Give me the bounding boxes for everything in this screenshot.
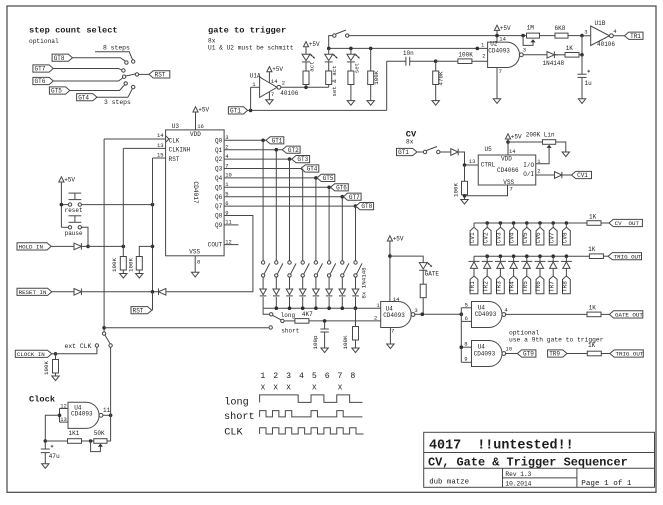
pin Q8 [215,209,229,219]
svg-text:14: 14 [157,132,164,139]
svg-text:pause: pause [65,230,83,237]
label 3 steps [104,99,131,106]
svg-text:CV1: CV1 [469,232,476,243]
svg-text:GT6: GT6 [336,184,347,191]
resistor 1K CV out [587,213,609,225]
svg-text:+5V: +5V [272,66,283,73]
title block Page 1 of 1 [581,480,632,488]
svg-text:100K: 100K [111,258,118,272]
op-amp U1A inverter 40106 [250,73,299,98]
wire GT5 to contact [70,85,125,91]
svg-text:100K: 100K [373,70,380,84]
svg-text:7: 7 [391,328,394,335]
diode step 4 1N4148 [299,277,306,308]
wire HOLD IN to diode [51,245,74,247]
svg-text:TR5: TR5 [522,281,529,292]
note optional [29,38,59,45]
svg-text:5: 5 [312,372,317,381]
svg-text:2: 2 [537,168,540,175]
pushbutton reset [65,193,83,214]
svg-text:1K1: 1K1 [69,430,80,437]
resistor 100K CLKINH pulldown [111,246,126,273]
title text 4017 !!untested!! [429,438,574,453]
svg-text:14: 14 [509,148,516,155]
switch step 1 [261,261,269,277]
diode TR2 [482,256,493,276]
svg-text:GT4: GT4 [78,94,89,101]
svg-text:CV1: CV1 [577,172,588,179]
svg-text:CLKINH: CLKINH [169,146,191,153]
power +5V 4017 VDD pin 16 [193,106,210,130]
svg-text:Q9: Q9 [215,222,223,229]
nand gate U4 CD4093 9th gate [464,341,512,367]
diode TR4 [508,256,519,276]
svg-text:act: act [309,61,316,71]
wire Q4 column drop [315,178,317,261]
wire U4 osc output [103,347,112,441]
potentiometer 200K Lin [508,132,566,164]
svg-text:CD4093: CD4093 [71,411,93,418]
tag CLOCK IN [15,350,51,358]
svg-text:step count select: step count select [29,25,118,35]
tag GT6 (step select) [33,77,53,85]
svg-text:GT6: GT6 [35,78,46,85]
svg-text:100K: 100K [127,258,134,272]
svg-text:Q6: Q6 [215,194,223,201]
wire CV out bus [474,221,587,225]
tag TR4 (bus input) [509,276,518,294]
wire Q6 column drop [341,197,343,261]
svg-text:1M: 1M [527,25,535,32]
svg-text:GT8: GT8 [361,203,372,210]
wire CLOCK IN to switch [52,347,97,355]
svg-text:GT4: GT4 [307,166,318,173]
tag TR7 (bus input) [548,276,557,294]
tag GT7 (step select) [33,65,53,73]
capacitor 100p [312,321,329,350]
tag RST (to reset net) [131,292,153,315]
ground 1u cap [578,99,585,104]
svg-text:200K Lin: 200K Lin [526,132,555,139]
svg-text:11: 11 [103,407,111,414]
ground 100K pulldown [367,101,374,106]
svg-text:VDD: VDD [501,155,512,162]
switch step 4 [301,261,309,277]
switch step 3 [288,261,296,277]
wire Q3 column drop [302,169,304,261]
timing diagram X marks [261,384,343,392]
svg-text:CV6: CV6 [535,232,542,243]
svg-text:optional: optional [29,38,59,45]
wire GT6 to contact [53,78,123,81]
svg-text:CLK: CLK [169,137,180,144]
diode step 8 1N4148 [352,277,359,308]
pin Q6 [215,191,229,201]
svg-text:8: 8 [350,372,355,381]
resistor 100K long bus pulldown [342,308,359,349]
tag GT6 (from Q5) [331,184,349,192]
note optional 9th gate [509,330,604,344]
svg-text:14: 14 [499,36,506,43]
wire Q4 to GT5 [224,176,318,180]
switch step 6 [327,261,335,277]
tag TRIG OUT (9th) [610,350,644,358]
tag CV8 (bus input) [562,223,571,245]
tag GT9 [517,350,536,358]
tag TR6 (bus input) [535,276,544,294]
svg-text:6: 6 [325,372,330,381]
svg-text:GT5: GT5 [51,88,62,95]
svg-text:VSS: VSS [189,249,200,256]
label 8 steps [103,45,130,52]
tag CV3 (bus input) [496,223,505,245]
LED act [302,54,316,72]
svg-text:X: X [273,384,278,392]
svg-text:TR6: TR6 [535,281,542,292]
section title step count select [29,25,118,35]
diode step 6 1N4148 [326,277,333,308]
timing waveform short [224,411,362,423]
svg-text:7: 7 [499,68,502,75]
svg-text:CD4093: CD4093 [474,350,496,357]
diode CV input [440,149,458,156]
tag GT3 (from Q2) [292,156,310,164]
svg-text:CD4093: CD4093 [383,312,405,319]
svg-text:3: 3 [523,47,526,54]
diode CV out [555,172,562,179]
svg-text:CV3: CV3 [496,232,503,243]
svg-text:+5V: +5V [393,235,404,242]
svg-text:10n: 10n [403,50,414,57]
tag CV1 (bus input) [469,223,478,245]
resistor 1K TRIG out [588,246,608,259]
wire hold net [81,245,125,249]
svg-text:GT9: GT9 [523,351,534,358]
svg-text:TRIG OUT: TRIG OUT [616,351,644,358]
wire CLK to short contact [104,327,269,329]
section title CV [406,129,417,139]
tag TR1 (bus input) [469,276,478,294]
wire reset net [81,290,158,294]
wire RESET IN to diode [52,291,74,293]
svg-text:Clock: Clock [29,394,55,404]
ground clock pulldown [52,376,59,381]
svg-text:1: 1 [260,372,265,381]
svg-text:Q8: Q8 [215,213,223,220]
svg-text:+5V: +5V [198,106,209,113]
svg-text:GT1: GT1 [272,137,283,144]
LED GATE [419,262,439,277]
svg-text:8: 8 [464,341,467,348]
power +5V U2 pin 14 [494,25,511,43]
tag HOLD IN [17,243,51,251]
tag CV OUT [609,219,642,227]
svg-text:RST: RST [133,307,144,314]
svg-text:CV4: CV4 [509,232,516,243]
title block frame [424,432,655,487]
svg-text:TR7: TR7 [548,281,555,292]
svg-text:reset: reset [65,207,83,214]
svg-text:1K: 1K [588,246,596,253]
capacitor 1u polarized [578,55,593,99]
svg-text:TR4: TR4 [509,281,516,292]
svg-text:13: 13 [469,158,476,165]
svg-text:GT5: GT5 [323,175,334,182]
switch step 8 [354,261,362,277]
ground 100K long bus [352,348,359,353]
svg-text:CV OUT: CV OUT [615,220,640,227]
svg-text:14: 14 [271,78,278,85]
wire TR9 to 1K [567,353,587,355]
diode reset input [74,289,81,296]
wire set rail to U2 pin1 [481,41,485,48]
wire U1A output rail [281,85,329,90]
svg-text:U1 & U2 must be schmitt: U1 & U2 must be schmitt [208,44,294,51]
svg-text:5: 5 [465,301,468,308]
svg-text:100K: 100K [458,51,473,58]
svg-text:47u: 47u [49,453,60,460]
wire diode to CV1 tag [562,174,572,176]
switch CV sample [417,147,440,154]
LED set [347,48,360,73]
svg-text:long: long [224,396,248,408]
wire Q8 to reset diode [166,216,253,292]
svg-text:470K: 470K [438,71,445,85]
diode TR7 [548,256,559,276]
tag TR2 (bus input) [482,276,491,294]
LED set & act [325,48,338,96]
svg-text:TR9: TR9 [549,351,560,358]
tag CV1 (from U5) [572,171,592,179]
svg-text:1K: 1K [566,45,574,52]
svg-text:+5V: +5V [64,176,75,183]
nand gate U4 CD4093 oscillator [60,402,110,428]
svg-text:8 steps: 8 steps [103,45,130,52]
wire Q1 column drop [275,150,277,261]
svg-text:GT7: GT7 [349,194,360,201]
wire Q5 column drop [328,187,330,260]
tag RESET IN [17,288,52,296]
resistor set LED [348,62,354,101]
wire Q6 to GT7 [224,195,344,199]
pin Q9 [215,219,233,229]
resistor 100K RST pulldown [127,246,152,273]
wire Q3 to GT4 [224,167,304,171]
tag GT8 (step select) [52,54,72,62]
wire common to RST tag [139,73,149,75]
svg-text:50K: 50K [94,430,105,437]
svg-text:TRIG OUT: TRIG OUT [614,253,642,260]
svg-text:TR1: TR1 [469,281,476,292]
svg-text:4: 4 [299,372,304,381]
wire U5 out to diode [536,174,555,176]
title text CV, Gate & Trigger Sequencer [428,456,628,470]
svg-text:GATE OUT: GATE OUT [615,312,643,319]
wire 8 steps to contact [95,52,133,60]
svg-text:O/I: O/I [523,171,534,178]
svg-text:gate to trigger: gate to trigger [208,25,286,35]
tag TR8 (bus input) [562,276,571,294]
wire U2 output [523,54,547,56]
note U1 & U2 must be schmitt [208,44,294,51]
power +5V U1A pin 14 [267,66,284,82]
svg-text:GT1: GT1 [398,149,409,156]
ground 470K [432,101,439,106]
tag CV5 (bus input) [522,223,531,245]
svg-text:3 steps: 3 steps [104,99,131,106]
node trigger threshold [580,28,587,56]
svg-text:Rev 1.3: Rev 1.3 [505,471,531,478]
note 8x CV [406,138,414,145]
svg-text:HOLD IN: HOLD IN [19,244,44,251]
tag CV4 (bus input) [509,223,518,245]
svg-text:COUT: COUT [208,242,223,249]
resistor 1K1 [44,430,94,444]
wire CLKINH drop [122,148,124,246]
tag CV7 (bus input) [548,223,557,245]
node 100p junction [323,319,327,323]
diode step 5 1N4148 [313,277,320,308]
svg-text:6: 6 [465,315,468,322]
svg-text:X: X [312,384,317,392]
resistor 1K gate out [587,304,609,316]
svg-text:1u: 1u [585,80,593,87]
svg-text:15: 15 [157,152,164,159]
wire Q9 stub [224,224,238,226]
diode hold input [74,243,81,250]
svg-text:VDD: VDD [190,131,201,138]
wire +5V to GATE LED [390,256,423,263]
resistor 6K8 [555,25,569,38]
pin Q0 [215,134,229,144]
tag GATE OUT [609,311,643,319]
tag CV2 (bus input) [482,223,491,245]
svg-text:8x 1N4148: 8x 1N4148 [360,267,367,299]
svg-text:GT2: GT2 [288,147,299,154]
potentiometer 50K [91,430,107,452]
svg-text:40106: 40106 [280,90,298,97]
timing diagram step numbers [260,372,355,381]
IC U3 CD4017 counter [166,123,225,256]
diode TR8 [561,256,572,276]
nand gate U4 CD4093 gate out driver [381,296,418,335]
switch step 7 [341,261,349,277]
svg-text:2: 2 [482,53,485,60]
nand gate U4 CD4093 gate buffer [465,301,509,327]
tag TR9 [548,350,567,358]
svg-text:+5V: +5V [511,133,522,140]
svg-text:6K8: 6K8 [555,25,566,32]
section title gate to trigger [208,25,286,35]
switch step count selector [122,60,139,89]
switch step 2 [275,261,283,277]
wire GT8 to contact [73,58,126,62]
svg-text:CV8: CV8 [562,232,569,243]
svg-text:long: long [281,312,296,319]
tag TRIG OUT [608,253,642,261]
capacitor 10n [387,50,436,110]
svg-text:U2: U2 [490,41,498,48]
wire diode to U5 pin13 [458,152,478,167]
tag TR5 (bus input) [522,276,531,294]
node 10n/470K/100K junction [434,59,438,63]
tag GT2 (from Q1) [282,146,300,154]
svg-text:CD4017: CD4017 [192,181,199,204]
diode step 7 1N4148 [339,277,346,308]
wire Q7 column drop [355,206,357,261]
svg-text:100p: 100p [312,335,319,349]
ground 4017 VSS pin 8 [192,256,201,277]
wire long bus to long contact [263,308,269,314]
svg-text:TR3: TR3 [496,281,503,292]
switch ext CLK select [65,332,113,350]
svg-text:U1B: U1B [595,20,606,27]
svg-text:1N4148: 1N4148 [543,60,565,67]
svg-text:4017 !!untested!!: 4017 !!untested!! [429,438,574,453]
tag GT4 (from Q3) [301,165,319,173]
svg-text:8x: 8x [406,138,414,145]
svg-text:13: 13 [157,142,164,149]
svg-text:X: X [261,384,266,392]
switch long/short [269,312,299,335]
diode TR3 [495,256,506,276]
svg-text:X: X [286,384,291,392]
capacitor 47u polarized [41,441,60,464]
ground U2 pin 7 [493,68,502,104]
svg-text:CD4093: CD4093 [475,311,497,318]
wire pause button to hold net [61,227,89,248]
ground CV pulldown [461,200,468,205]
resistor 1K trig9 out [587,342,610,356]
svg-text:10.2014: 10.2014 [505,481,531,488]
wire Q0 column drop [262,140,264,260]
svg-text:100K: 100K [342,335,349,349]
wire reset button to RST net [60,203,155,207]
ground set LED [347,101,354,106]
svg-text:RST: RST [169,156,180,163]
wire Q7 to GT8 [224,204,357,208]
note 8x [208,38,216,45]
op-amp U1B inverter 40106 [582,20,625,48]
svg-text:CV7: CV7 [548,232,555,243]
svg-text:GATE: GATE [425,270,440,277]
pin Q7 [215,200,229,210]
svg-text:RESET IN: RESET IN [19,289,47,296]
svg-text:Q3: Q3 [215,166,223,173]
title block date 10.2014 [505,481,531,488]
svg-text:2: 2 [273,372,278,381]
wire TRIG out bus [474,254,589,258]
power +5V act LED [303,41,320,54]
svg-text:+5V: +5V [500,25,511,32]
svg-text:7: 7 [510,186,513,193]
wire top +5V rail [349,35,582,37]
ground U4 pin 7 [387,328,394,349]
svg-text:RST: RST [155,72,166,79]
resistor act LED [303,62,309,87]
tag CV6 (bus input) [535,223,544,245]
svg-text:Q5: Q5 [215,184,223,191]
svg-text:1K: 1K [589,213,597,220]
svg-text:9: 9 [464,356,467,363]
tag TR3 (bus input) [496,276,505,294]
pin Q4 [215,172,232,182]
svg-text:U1A: U1A [250,73,261,80]
svg-text:U3: U3 [172,123,180,130]
svg-text:2: 2 [374,315,377,322]
svg-text:10: 10 [506,346,513,353]
wire gate2/gate3 inputs tied [460,308,472,363]
